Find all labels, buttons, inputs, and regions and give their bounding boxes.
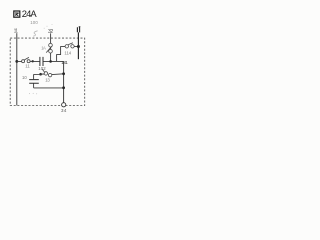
svg-text:24A: 24A (22, 8, 38, 19)
svg-text:10: 10 (22, 75, 27, 80)
svg-text:13: 13 (45, 77, 50, 82)
svg-text:181: 181 (61, 60, 68, 65)
svg-text:11: 11 (25, 64, 30, 69)
svg-text:114: 114 (64, 51, 71, 56)
svg-text:34: 34 (61, 108, 67, 113)
svg-text:100: 100 (30, 20, 38, 25)
svg-text:102: 102 (38, 66, 46, 71)
svg-text:11: 11 (14, 29, 19, 35)
svg-text:1A: 1A (41, 46, 46, 51)
